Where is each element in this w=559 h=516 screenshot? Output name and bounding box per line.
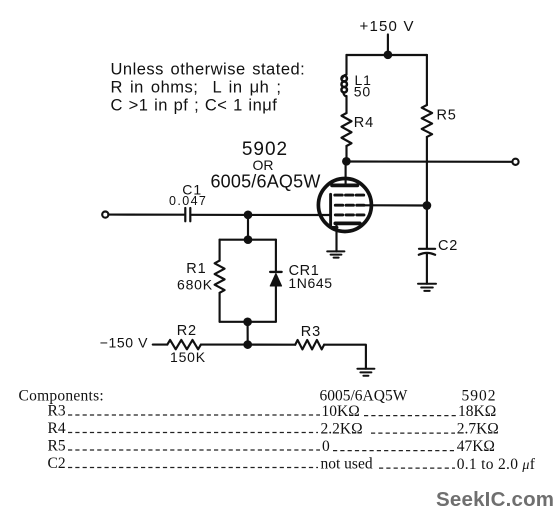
svg-text:+150 V: +150 V [360, 18, 415, 35]
table row R5 [48, 437, 495, 455]
node bias rail [243, 340, 252, 349]
table row R3 [48, 402, 497, 420]
diode CR1 (right branch) [275, 240, 277, 272]
terminal output [512, 159, 518, 165]
wire +150V lead [387, 35, 389, 56]
tube cathode bar [335, 222, 360, 226]
table header row [19, 387, 497, 404]
capacitor C1 [184, 208, 186, 221]
svg-text:R3: R3 [48, 402, 66, 419]
wire box top [220, 239, 276, 241]
node grid junction [244, 210, 253, 219]
wire R5 bottom lead [426, 137, 428, 206]
node box top [244, 235, 253, 244]
svg-text:18KΩ: 18KΩ [458, 403, 496, 420]
wire top rail [347, 54, 427, 56]
node screen junction [423, 201, 432, 210]
wire box bottom [220, 321, 276, 323]
wire R4 bottom lead [345, 146, 347, 162]
ground C2 [418, 284, 436, 291]
tube plate lead [345, 162, 347, 186]
svg-text:Unless otherwise stated:: Unless otherwise stated: [111, 60, 306, 78]
svg-text:1N645: 1N645 [288, 275, 332, 291]
svg-text:10KΩ: 10KΩ [322, 403, 360, 420]
ground cathode [327, 251, 344, 257]
svg-text:C2: C2 [48, 455, 66, 472]
inductor L1 [343, 75, 347, 78]
wire C2-ground [426, 254, 428, 284]
text: conditions note [111, 60, 306, 114]
node box bottom [243, 317, 252, 326]
table row C2 [48, 455, 536, 473]
tube grid sidebar [329, 194, 332, 227]
wire cathode lead [335, 223, 337, 251]
svg-text:R in ohms; L in μh ;: R in ohms; L in μh ; [111, 79, 282, 97]
resistor R5 [422, 105, 432, 137]
svg-text:6005/6AQ5W: 6005/6AQ5W [320, 387, 408, 404]
table row R4 [48, 420, 499, 438]
svg-text:R4: R4 [48, 420, 66, 437]
label CR1 value [288, 263, 332, 291]
label tube types [210, 139, 320, 191]
resistor R3 [295, 340, 324, 349]
wire grid node down to box [247, 215, 249, 240]
wire bias node to R3 [248, 344, 296, 346]
node top rail junction [384, 50, 393, 59]
svg-text:0.1 to 2.0 μf: 0.1 to 2.0 μf [457, 456, 536, 473]
label R1 value [177, 261, 213, 292]
wire C1 to grid [192, 214, 331, 216]
svg-text:0: 0 [322, 438, 330, 455]
svg-text:R2: R2 [177, 323, 197, 339]
svg-text:R5: R5 [437, 107, 457, 123]
svg-text:5902: 5902 [462, 387, 497, 404]
capacitor C2 [419, 248, 435, 250]
wire box bottom to bias rail [247, 322, 249, 345]
svg-text:0.047: 0.047 [169, 194, 207, 208]
svg-text:R5: R5 [48, 437, 66, 454]
wire R2 to bias node [201, 344, 248, 346]
svg-text:2.7KΩ: 2.7KΩ [457, 421, 499, 438]
svg-text:not used: not used [321, 456, 373, 473]
resistor R1 (left branch) [219, 240, 221, 261]
svg-text:50: 50 [354, 83, 371, 99]
svg-text:2.2KΩ: 2.2KΩ [321, 421, 363, 438]
terminal input [102, 212, 108, 218]
wire -150V lead [153, 344, 168, 346]
tube V1 envelope [318, 179, 371, 232]
wire screen grid to node [364, 204, 427, 206]
node plate junction [342, 157, 351, 166]
tube grid row 2 (dashed) [335, 204, 364, 207]
wire R5 top lead [426, 55, 428, 105]
wire C2 top lead [426, 206, 428, 249]
label C1 value [169, 181, 207, 208]
svg-text:C >1 in pf ; C< 1 inμf: C >1 in pf ; C< 1 inμf [111, 97, 278, 115]
wire L1 top lead [345, 55, 347, 75]
tube grid row 1 (dashed) [335, 194, 364, 197]
table leader dashes [68, 415, 456, 468]
wire R3 to ground corner [324, 345, 366, 369]
wire input to C1 [108, 214, 184, 216]
svg-text:−150 V: −150 V [100, 335, 148, 351]
svg-text:47KΩ: 47KΩ [457, 438, 495, 455]
label L1 value [354, 72, 372, 100]
label R2 value [170, 323, 206, 365]
wire L1-R4 [345, 96, 347, 113]
svg-text:C2: C2 [438, 238, 458, 254]
tube cathode bottom stub [331, 226, 337, 229]
svg-text:680K: 680K [177, 277, 213, 293]
svg-text:R1: R1 [186, 261, 206, 277]
svg-text:150K: 150K [170, 349, 206, 365]
svg-text:SeekIC.com: SeekIC.com [436, 488, 554, 511]
tube plate bar [332, 184, 357, 188]
ground R3 [357, 369, 374, 376]
svg-text:6005/6AQ5W: 6005/6AQ5W [210, 171, 320, 191]
tube grid row 3 (dashed) [335, 213, 364, 216]
wire output [346, 160, 512, 162]
svg-text:R3: R3 [301, 324, 321, 340]
svg-text:R4: R4 [354, 115, 374, 131]
resistor R4 [342, 113, 352, 146]
